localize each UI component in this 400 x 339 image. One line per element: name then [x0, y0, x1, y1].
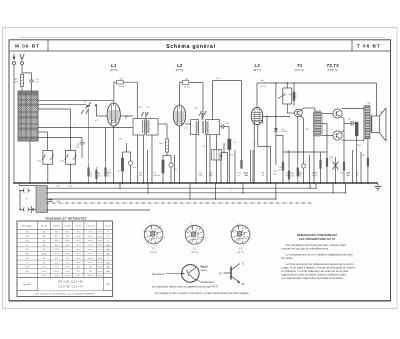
wire [195, 135, 197, 183]
svg-text:2,2k: 2,2k [199, 175, 203, 177]
wire elbow [258, 146, 271, 148]
wire [20, 209, 24, 211]
wire riser [215, 183, 217, 199]
wire CV1 feed [47, 132, 49, 150]
svg-text:2 OC 72: 2 OC 72 [327, 68, 338, 72]
junction [130, 182, 132, 184]
wire L3 secondary lead [257, 124, 259, 147]
wire osc feedback [88, 108, 90, 161]
wire bracket leg [212, 81, 214, 120]
wire [309, 155, 311, 183]
svg-text:1: 1 [251, 238, 252, 240]
capacitor C13 [222, 124, 224, 129]
resistor R7 [121, 158, 123, 171]
junction [287, 82, 289, 84]
ground bus [14, 182, 378, 184]
junction [70, 182, 72, 184]
svg-text:Schéma général: Schéma général [166, 44, 216, 50]
junction [275, 198, 276, 199]
svg-text:Électrodes: Électrodes [22, 225, 33, 228]
svg-text:*Ces mesures ont été effectuée: *Ces mesures ont été effectuées avec un … [35, 293, 96, 296]
svg-text:(5,6k): (5,6k) [184, 87, 189, 89]
capacitor C10 [169, 163, 173, 167]
junction [270, 182, 272, 184]
svg-text:T2,T3: T2,T3 [327, 63, 339, 68]
junction [13, 182, 15, 184]
wire riser [332, 183, 334, 193]
svg-text:Le fil de connexion du collect: Le fil de connexion du collecteur est re… [286, 262, 354, 266]
wire T1 base [287, 112, 294, 114]
junction [293, 82, 295, 84]
wire T1 emitter diag [301, 116, 304, 119]
frame bottom shadow [9, 301, 391, 303]
junction [367, 182, 369, 184]
pinout of L2 [183, 224, 205, 248]
wire [166, 152, 168, 156]
svg-text:Ce montage est dit « émetteur: Ce montage est dit « émetteur à la masse… [155, 292, 250, 295]
svg-text:10k: 10k [98, 175, 101, 177]
svg-text:Les transistors utilisés dans: Les transistors utilisés dans cet appare… [152, 285, 218, 288]
wire L2 to filter [185, 123, 191, 125]
svg-text:3,3k: 3,3k [290, 175, 294, 177]
svg-text:(M 77): (M 77) [237, 252, 244, 254]
junction [266, 182, 268, 184]
wire T1 collector diag [301, 108, 304, 111]
capacitor [29, 80, 34, 82]
svg-text:12k: 12k [118, 139, 121, 141]
wire bracket to filter [136, 82, 138, 118]
svg-text:mA: mA [106, 253, 110, 256]
wire [234, 150, 236, 183]
transistor T3 OC72 [333, 131, 342, 140]
junction [297, 182, 299, 184]
svg-text:2: 2 [197, 246, 198, 248]
wire [356, 136, 358, 183]
svg-text:68k: 68k [209, 175, 212, 177]
wire [137, 135, 139, 183]
wire [147, 150, 149, 183]
wire [224, 126, 229, 128]
junction [216, 182, 218, 184]
junction [96, 182, 98, 184]
svg-text:3: 3 [187, 243, 188, 245]
resistor [105, 162, 110, 183]
svg-text:Unit.: Unit. [106, 225, 111, 228]
wire emitter stem T5 [223, 143, 225, 153]
svg-text:3: 3 [146, 243, 147, 245]
IF transformer L1 [107, 103, 120, 126]
wire L2 top lead [179, 83, 181, 106]
wire riser [275, 183, 277, 199]
wire pot bottom [286, 104, 288, 113]
wire L1 to filter [120, 115, 133, 117]
resistor R21 [320, 160, 322, 168]
svg-text:(2,2k): (2,2k) [260, 86, 265, 88]
junction [228, 182, 230, 184]
resistor [96, 167, 101, 183]
svg-text:4,7k: 4,7k [156, 175, 160, 177]
svg-text:Ig. total.: Ig. total. [23, 283, 31, 286]
wire [31, 82, 33, 91]
wire [21, 65, 23, 74]
svg-text:OC 71: OC 71 [75, 226, 82, 228]
wire to L1 [96, 115, 107, 117]
earth terminal symbol [20, 54, 24, 60]
transistor symbol legend [219, 261, 245, 286]
resistor R26 [367, 158, 369, 166]
resistor R22 [326, 158, 328, 166]
wire riser [345, 183, 347, 193]
transistor T4 OC45 [141, 112, 149, 117]
wire T3 emitter [341, 131, 345, 133]
junction [352, 182, 354, 184]
capacitor C11 [182, 81, 189, 85]
wire rod tap 4 [38, 131, 48, 133]
wire [81, 144, 83, 158]
volume potentiometer P2 [278, 88, 292, 104]
wire AVC [105, 128, 107, 162]
wire diode out [275, 132, 277, 166]
IF filter L5b [206, 120, 220, 135]
switch block S1 [36, 186, 48, 213]
wire [31, 73, 33, 80]
junction [151, 182, 153, 184]
transistor outline legend [166, 265, 199, 283]
junction [170, 182, 172, 184]
junction [179, 182, 181, 184]
IF filter L4a [133, 119, 145, 136]
wire rod to trimmer [38, 103, 86, 105]
svg-text:40k: 40k [245, 175, 248, 177]
junction [227, 182, 229, 184]
wire CV2 feed [69, 109, 71, 150]
wire [174, 155, 176, 183]
IF transformer L2 [173, 105, 185, 126]
junction [18, 182, 20, 184]
svg-text:L2: L2 [177, 63, 183, 68]
wire [20, 190, 24, 192]
pinout of L1 [142, 223, 164, 247]
junction [19, 190, 21, 192]
svg-text:G.C.2 = 90 O.C.3 = 70: G.C.2 = 90 O.C.3 = 70 [58, 287, 83, 289]
junction [105, 182, 107, 184]
wire T3 base [321, 135, 333, 137]
svg-text:rouge. Si ce point a disparu,: rouge. Si ce point a disparu, il serait … [282, 266, 356, 270]
junction [241, 182, 243, 184]
svg-text:eux-mêmes plus rapprochés que: eux-mêmes plus rapprochés que base et ém… [282, 276, 344, 280]
jack socket J1 [23, 188, 30, 192]
svg-text:L1: L1 [111, 63, 117, 68]
wire TR2 tap [367, 139, 369, 148]
wire dropper feed [241, 81, 243, 162]
terminal A2 [21, 62, 24, 65]
junction [326, 182, 328, 184]
junction [19, 209, 21, 211]
junction [242, 192, 243, 193]
wire [47, 164, 49, 183]
svg-text:OA70: OA70 [282, 130, 288, 133]
svg-text:de l’autre.: de l’autre. [282, 256, 294, 260]
wire [201, 113, 203, 120]
wire riser [309, 183, 311, 188]
capacitor C20 [301, 164, 305, 168]
wire [216, 160, 218, 183]
wire rod bottom [29, 141, 31, 183]
svg-text:5: 5 [237, 223, 238, 225]
wire T3 collector [342, 139, 365, 141]
junction [189, 198, 190, 199]
resistor R14 [241, 160, 243, 168]
junction [88, 182, 90, 184]
svg-text:E: E [242, 282, 244, 286]
title bar bottom rule [9, 50, 391, 52]
wire [162, 156, 164, 184]
wire emitters join [343, 119, 345, 131]
transistor T0 OC44 [81, 110, 89, 115]
junction [47, 182, 49, 184]
wire diode in [275, 83, 277, 128]
svg-text:entouré de son clip de refroid: entouré de son clip de refroidissement. [282, 247, 330, 251]
title box divider left [47, 40, 49, 51]
svg-text:Émetteur: Émetteur [152, 271, 164, 276]
svg-text:4: 4 [183, 231, 184, 233]
wire bias feed [303, 148, 305, 152]
svg-text:OC 44: OC 44 [41, 226, 48, 228]
svg-text:5: 5 [150, 223, 151, 225]
wire [220, 126, 222, 128]
junction [206, 182, 208, 184]
IF filter L4b [147, 119, 159, 136]
junction [303, 182, 305, 184]
wire T2 base [321, 113, 333, 115]
wire to speaker [371, 117, 372, 119]
svg-text:OC 45: OC 45 [53, 226, 60, 228]
svg-text:Base: Base [201, 265, 209, 269]
wire riser [189, 183, 191, 199]
junction [335, 182, 337, 184]
capacitor C30 [48, 200, 52, 202]
svg-text:1k: 1k [329, 159, 331, 161]
svg-text:4,7k: 4,7k [216, 78, 220, 80]
junction [252, 182, 254, 184]
wire [250, 150, 252, 183]
svg-text:5n: 5n [237, 175, 239, 177]
wire [206, 135, 208, 183]
capacitor C21 [351, 121, 353, 126]
junction [253, 182, 255, 184]
junction [275, 116, 277, 118]
svg-text:1k: 1k [117, 171, 119, 173]
svg-text:6: 6 [160, 226, 161, 228]
resistor R19 [355, 122, 358, 136]
svg-text:1: 1 [164, 238, 165, 240]
wire [209, 135, 211, 183]
output transformer TR2 [364, 106, 372, 142]
svg-text:(OC 71): (OC 71) [295, 68, 305, 72]
wire primary return [313, 135, 315, 184]
wire [13, 65, 15, 184]
svg-text:Le remplacement de l’un entraî: Le remplacement de l’un entraîne obligat… [286, 253, 353, 257]
svg-text:15k: 15k [288, 94, 291, 96]
driver transformer TR1 [313, 111, 322, 136]
wire T2 emitter [341, 117, 345, 119]
resistor R13 [293, 92, 295, 100]
title bar ghost top rule [20, 37, 385, 39]
wire pot top lead [286, 83, 288, 88]
capacitor C19 [282, 162, 284, 170]
wire pair top [123, 151, 131, 153]
variable capacitor CV2 [65, 150, 77, 164]
svg-text:Ces transistors sont livrés pa: Ces transistors sont livrés par paire, c… [286, 243, 347, 247]
wire riser [315, 183, 317, 188]
wire [360, 152, 362, 183]
svg-text:C.m: C.m [25, 267, 29, 269]
junction [313, 182, 315, 184]
junction [315, 188, 316, 189]
junction [143, 182, 145, 184]
wire chassis dash-dot [46, 202, 313, 204]
wire AGC line [38, 127, 133, 129]
junction [220, 182, 222, 184]
ground symbol [374, 183, 381, 190]
wire secondary CT [321, 123, 327, 125]
svg-text:(M 76): (M 76) [176, 68, 184, 72]
transistor T5 OC45 [199, 111, 207, 116]
svg-text:mA: mA [106, 244, 110, 247]
junction [332, 192, 333, 193]
title box divider right [351, 40, 353, 51]
wire supply line 4 [46, 209, 150, 211]
svg-text:OC 45: OC 45 [64, 226, 71, 228]
wire [22, 72, 32, 74]
junction [343, 182, 345, 184]
wire [320, 152, 322, 183]
svg-text:4: 4 [229, 230, 230, 232]
wire [228, 150, 230, 184]
svg-text:5n: 5n [312, 175, 314, 177]
junction [309, 182, 311, 184]
junction [215, 198, 216, 199]
svg-text:mA: mA [106, 270, 110, 273]
ferrite rod antenna L0 [18, 91, 38, 141]
svg-text:Int.: Int. [26, 198, 29, 201]
wire detector feed [262, 116, 290, 118]
wire rod to CV2 [38, 108, 70, 110]
svg-text:2 OC 72: 2 OC 72 [86, 226, 95, 228]
wire riser [119, 183, 121, 188]
wire [21, 87, 23, 92]
wire [70, 164, 72, 183]
diode D1 [274, 128, 278, 131]
wire pair top [221, 152, 228, 154]
remarks text block [282, 233, 356, 280]
capacitor C17 [219, 154, 222, 157]
svg-text:4: 4 [142, 230, 143, 232]
wire bracket to filter 2 [202, 83, 204, 120]
transistor T1 OC71 [295, 109, 303, 117]
wire right rail drop [376, 83, 378, 116]
wire [29, 209, 32, 211]
svg-text:mA: mA [106, 248, 110, 251]
wire T1 bias feed [293, 83, 295, 106]
wire tuned top [38, 100, 114, 102]
resistor R1 [20, 75, 23, 87]
junction [95, 104, 97, 106]
wire [303, 119, 305, 148]
junction [356, 182, 358, 184]
svg-text:P.O. = 250 G.O.1 = 90: P.O. = 250 G.O.1 = 90 [59, 282, 84, 284]
wire speaker return [371, 129, 372, 131]
svg-text:6: 6 [201, 226, 202, 228]
wire [130, 152, 132, 183]
wire L2 feedback bracket [180, 82, 204, 84]
resistor R10 [228, 139, 231, 150]
svg-text:5n: 5n [356, 175, 358, 177]
variable capacitor CV1 [42, 150, 54, 164]
wire [282, 136, 284, 161]
wire T1 to driver transformer [304, 107, 315, 109]
wire [252, 150, 254, 183]
wire riser [147, 183, 149, 193]
svg-text:10k: 10k [107, 175, 110, 177]
wire [216, 135, 218, 150]
svg-text:2: 2 [156, 245, 157, 247]
svg-text:1: 1 [205, 239, 206, 241]
choke L6 [212, 150, 222, 161]
wire L3 top lead [256, 83, 258, 108]
wire [326, 124, 328, 153]
junction [147, 192, 148, 193]
wire filter to L2 [158, 123, 167, 125]
wire L1 feedback bracket [114, 81, 137, 83]
wire L3 ground lead [253, 124, 255, 183]
svg-text:T1: T1 [297, 63, 303, 68]
wire [19, 185, 36, 187]
table tensions et intensites [17, 215, 112, 296]
svg-text:LES TRANSISTORS OC 72: LES TRANSISTORS OC 72 [299, 237, 336, 241]
resistor [297, 162, 303, 183]
wire emitter stem [126, 143, 128, 152]
wire bias link [283, 151, 327, 153]
wire L1 bottom [113, 126, 115, 183]
svg-text:2: 2 [243, 245, 244, 247]
junction [360, 182, 362, 184]
wire [344, 122, 351, 124]
svg-text:3: 3 [233, 243, 234, 245]
pinout of L3 [229, 223, 251, 247]
wire [343, 131, 345, 184]
loudspeaker HP [372, 108, 386, 141]
wire jack link [19, 191, 21, 210]
wire supply line B- [257, 82, 377, 84]
wire L2 bottom [179, 126, 181, 183]
svg-text:L3: L3 [254, 63, 260, 68]
wire [33, 209, 36, 211]
junction [320, 182, 322, 184]
wire [326, 152, 328, 183]
capacitor C8 [128, 161, 132, 165]
IF transformer L3 [251, 107, 263, 124]
svg-text:4,7k: 4,7k [202, 146, 206, 148]
wire detector [276, 135, 283, 137]
wire bus tap [18, 183, 20, 186]
junction [29, 182, 31, 184]
wire [353, 122, 357, 124]
IF filter L5a [191, 120, 199, 135]
junction [137, 182, 139, 184]
svg-text:rapproché du bord du boitier,: rapproché du bord du boitier, base et co… [282, 273, 347, 277]
wire primary lead [314, 108, 316, 112]
